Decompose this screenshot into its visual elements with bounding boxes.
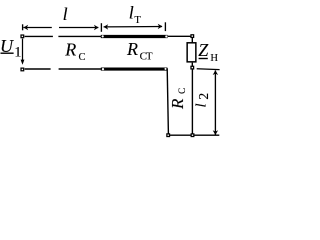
dimension lT arrow right [158,24,163,29]
junction dot bottom right corner [164,68,166,70]
svg-text:Т: Т [134,15,141,26]
wire bottom conductor thin [25,68,51,70]
dimension l2 arrow up [213,70,218,75]
svg-text:l: l [193,103,209,107]
wire load top [191,38,193,43]
svg-text:R: R [64,40,76,60]
dimension l2 extension top [197,68,220,71]
terminal input top [20,34,24,38]
dimension l arrow left [23,25,28,30]
dimension lT extension tick right [164,22,166,31]
bottom conductor thick section [101,68,168,71]
wire stub short and extension bottom [168,134,219,136]
terminal load top [190,34,194,38]
wire top conductor thin [25,35,53,37]
junction dot top right [165,35,167,37]
terminal stub bottom right [191,133,195,137]
top conductor thick RCT section [101,35,168,38]
svg-text:Z: Z [198,40,209,60]
dimension lT line [104,26,162,28]
dimension l2 line [214,70,216,134]
terminal load bottom [190,66,194,70]
svg-text:Т: Т [146,51,153,63]
dimension l extension tick middle [100,23,102,32]
svg-text:С: С [177,88,187,94]
svg-text:С: С [79,52,86,63]
svg-text:l: l [63,4,68,24]
wire stub right conductor [191,69,193,134]
source U1 arrow [22,39,24,61]
svg-text:2: 2 [196,93,211,100]
junction dot bottom left [102,68,104,70]
dimension l extension tick left [22,24,24,30]
dimension l line [23,27,51,29]
dimension l2 arrow down [213,130,218,135]
wire load bottom [191,63,193,67]
dimension lT arrow left [103,24,108,29]
wire stub left conductor [167,68,168,134]
svg-text:R: R [168,98,187,110]
svg-text:Н: Н [210,53,218,64]
dimension l arrow right [94,25,99,30]
terminal input bottom [20,68,24,72]
svg-text:1: 1 [14,45,21,61]
svg-text:R: R [126,39,138,59]
svg-text:l: l [129,3,134,23]
terminal stub bottom left [166,133,170,137]
load ZH box [187,43,196,62]
wire top conductor to load [168,35,191,37]
junction dot top left [102,35,104,37]
